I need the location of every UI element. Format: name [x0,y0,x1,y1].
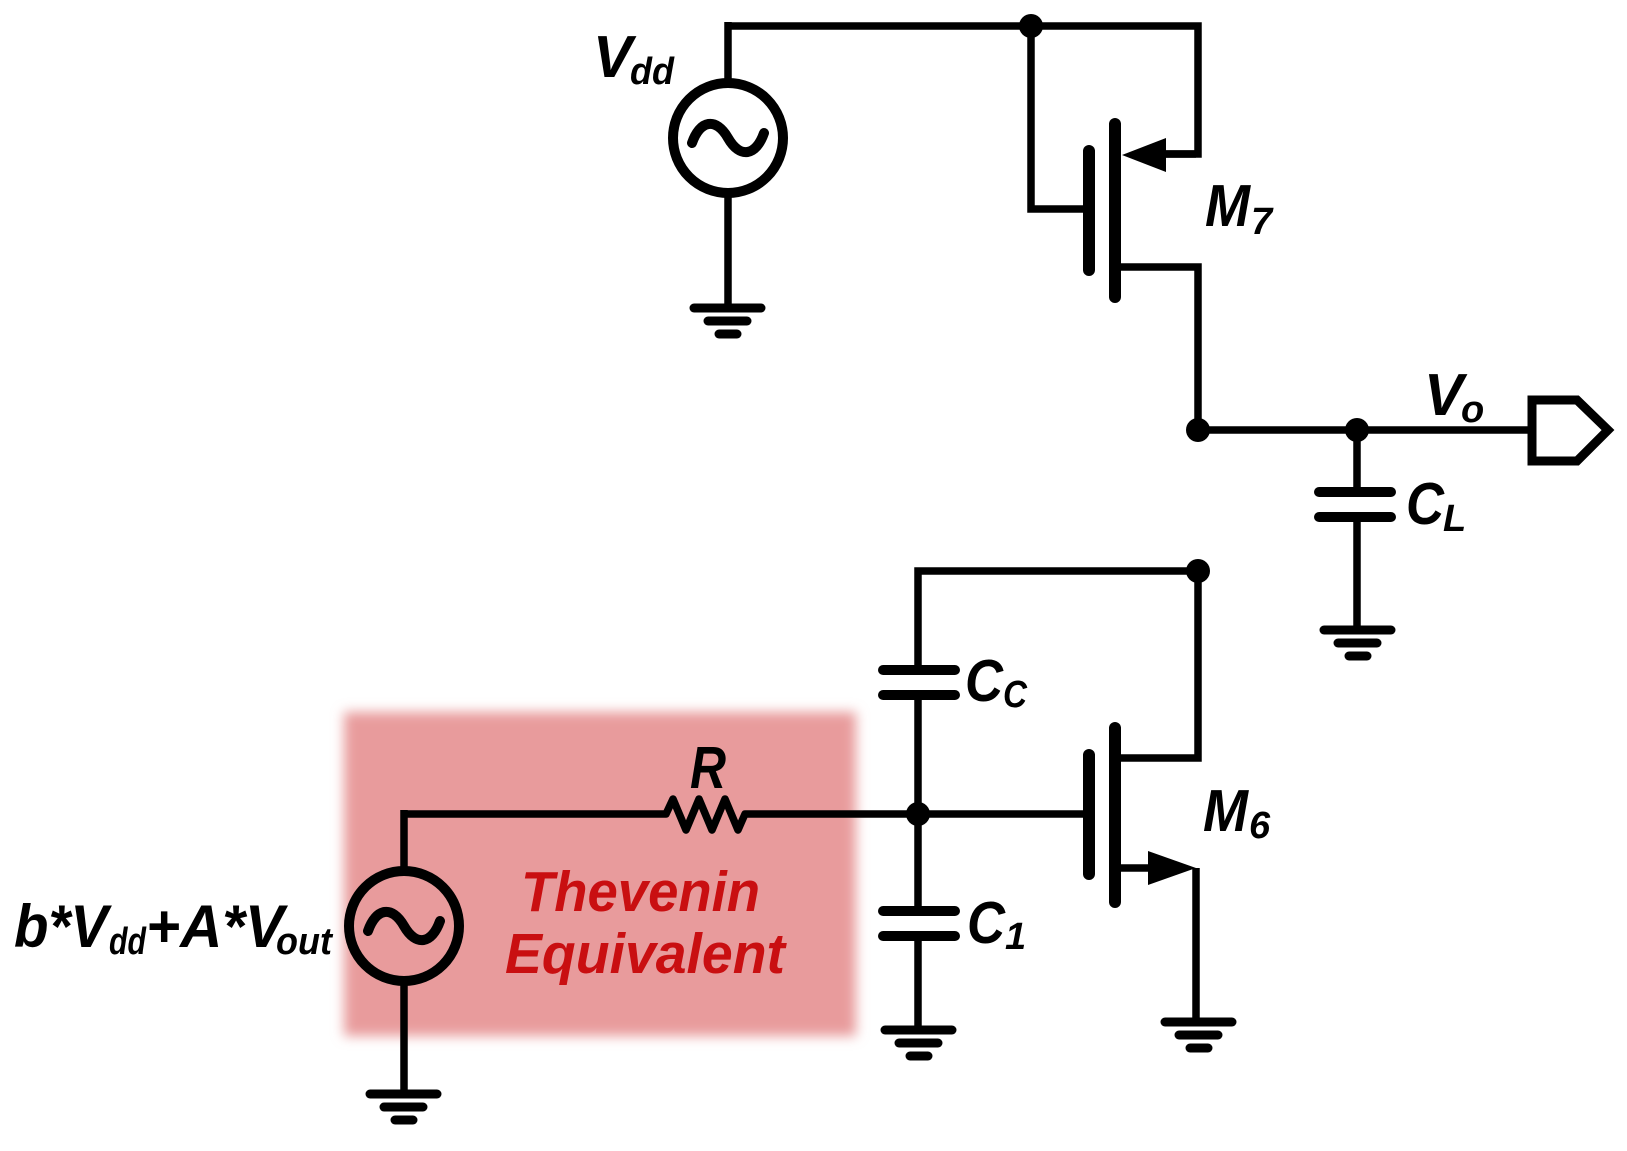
wire M7 drain down to output node [1115,267,1198,430]
svg-text:C: C [965,648,1004,714]
output port Vo [1532,400,1608,461]
wire M7 source [1162,150,1196,158]
ground (M6 source) [1165,1022,1232,1048]
transistor M7 (PMOS) gate bar [1083,151,1095,270]
transistor M6 source arrow [1148,851,1196,885]
svg-text:dd: dd [630,51,675,93]
capacitor CC [883,670,955,695]
transistor M7 source arrow [1122,138,1166,172]
wire junction down to M7 gate [1031,26,1085,209]
svg-text:b*V: b*V [14,893,113,960]
node junction at top rail [1019,14,1043,38]
wire CL bottom stem [1353,517,1361,626]
sine wave thevenin [368,912,440,940]
resistor R with wires [404,799,918,830]
sine wave Vdd [692,124,764,152]
svg-text:6: 6 [1249,805,1271,847]
node junction M6 drain / CC [1186,559,1210,583]
svg-text:1: 1 [1005,916,1026,958]
svg-text:C: C [1003,674,1027,716]
voltage source Vdd [673,83,783,193]
svg-text:Thevenin: Thevenin [521,860,760,924]
svg-text:M: M [1203,778,1250,844]
wire Vdd source stem [724,22,732,84]
wire C1 bottom stem [914,936,922,1026]
wire CC bottom stem [914,695,922,814]
wire M6 source [1115,864,1150,872]
wire Vdd top rail [728,26,1198,154]
ground (CL) [1324,630,1391,656]
transistor M7 channel bar [1109,124,1121,297]
Thevenin Equivalent highlight box [344,712,856,1036]
node Vo junction [1186,418,1210,442]
wire node to CC branch [918,571,1198,670]
svg-text:M: M [1205,173,1252,239]
svg-text:Equivalent: Equivalent [505,922,787,986]
svg-text:C: C [967,890,1006,956]
node CL junction [1345,418,1369,442]
ground (thevenin source) [370,1094,437,1120]
wire M6 drain [1115,571,1198,758]
svg-text:7: 7 [1251,201,1274,243]
wire thevenin source stem [400,810,408,872]
node junction gate/R/C1 [906,802,930,826]
svg-text:R: R [690,735,726,801]
svg-text:L: L [1443,498,1466,540]
wire M6 gate [918,810,1085,818]
wire thevenin source to ground [400,982,408,1090]
svg-text:out: out [276,921,333,963]
ground (C1) [885,1030,952,1056]
svg-text:C: C [1406,471,1445,537]
ground (Vdd source) [694,308,761,334]
wire C1 stem [914,814,922,910]
voltage source thevenin [349,871,459,981]
capacitor C1 [883,911,955,936]
wire M6 source to ground [1192,868,1200,1018]
svg-text:dd: dd [109,921,147,963]
transistor M6 (NMOS) gate bar [1083,755,1095,874]
transistor M6 channel bar [1109,728,1121,902]
capacitor CL [1319,492,1391,517]
svg-text:o: o [1461,389,1484,431]
wire output node to port [1198,426,1530,434]
wire CL top stem [1353,430,1361,490]
wire Vdd source to ground [724,194,732,304]
svg-text:+A*V: +A*V [146,893,289,960]
